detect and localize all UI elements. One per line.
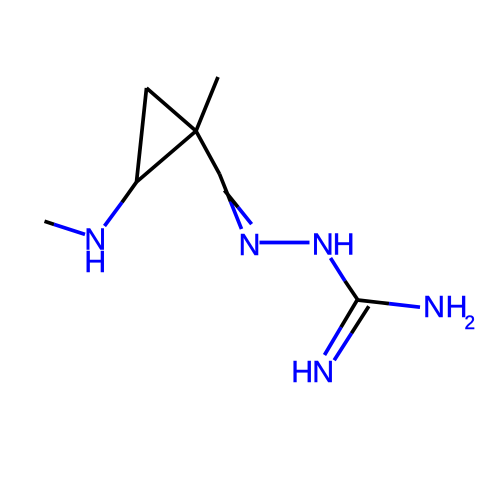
svg-text:H: H (333, 227, 355, 261)
bond Cg=N4 double, line2 blue half (334, 333, 351, 360)
wire: bond N2 to N3 (260, 241, 310, 245)
wire: bond V2 to apex2 (methyl up) (196, 77, 218, 131)
bond C=N2 crossed double, line1 black half (220, 174, 231, 202)
wire: bond Cg to N5 black half (358, 300, 390, 304)
wire: bond N1 to C(V1) black half (122, 182, 137, 202)
bond Cg=N4 double, line1 blue half (325, 327, 342, 355)
wire: bond V1 to V2 (137, 131, 197, 182)
svg-text:H: H (291, 355, 313, 389)
svg-text:N: N (423, 290, 445, 324)
wire: bond CH3 to N1 (black half) (45, 221, 55, 224)
wire: bond N3 to Cg black half (345, 281, 358, 300)
svg-text:N: N (312, 227, 334, 261)
wire: bond V2 to C hydrazone carbon (196, 131, 220, 174)
bond Cg=N4 double, line2 black half (352, 306, 369, 333)
wire: tall bond apex1 down to V1 (137, 88, 147, 182)
bond C=N2 crossed double, line2 black half (224, 190, 238, 207)
wire: ring bond apex1 to V2 (147, 88, 197, 131)
svg-text:N: N (312, 355, 334, 389)
wire: bond N3 to Cg blue half (331, 258, 346, 281)
bond C=N2 crossed double, line2 blue half (238, 207, 252, 224)
bond C=N2 crossed double, line1 blue half (231, 202, 242, 230)
svg-text:2: 2 (465, 313, 476, 334)
bond Cg=N4 double, line1 black half (341, 300, 358, 328)
wire: bond N1 to C(V1) blue half (105, 202, 123, 226)
wire: bond Cg to N5 blue half (389, 304, 420, 308)
wire: bond CH3 to N1 (blue half) (54, 224, 85, 234)
svg-text:H: H (84, 245, 106, 279)
svg-text:N: N (238, 228, 260, 262)
